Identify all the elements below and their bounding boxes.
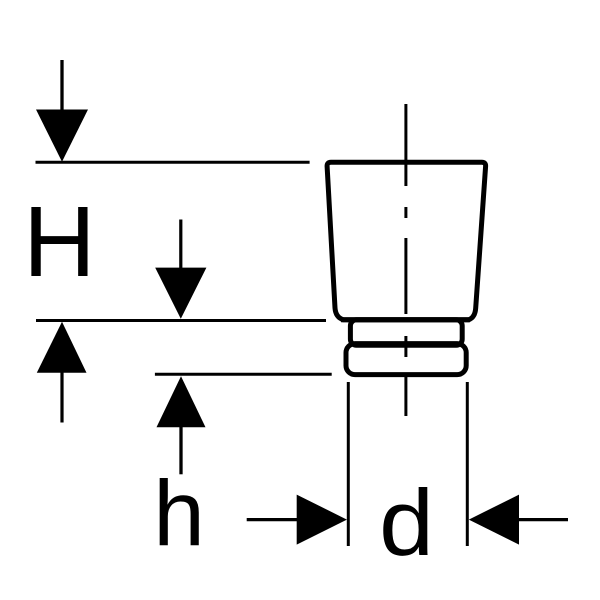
centerline segment 3: [404, 238, 407, 314]
extension line d right: [466, 382, 469, 546]
centerline dash 4: [404, 336, 407, 357]
centerline segment 5: [404, 376, 407, 416]
centerline segment 1: [404, 104, 407, 186]
svg-text:h: h: [153, 462, 205, 566]
extension line d left: [347, 382, 350, 546]
cap bottom band rounded rect: [346, 344, 466, 375]
dimension line top (H upper reference): [36, 161, 310, 164]
dimension arrow H top (down) head: [36, 110, 88, 162]
cap neck rounded rect: [350, 320, 462, 345]
dimension line lower (h lower reference): [155, 373, 332, 376]
dimension arrow d right (left-pointing) stem: [517, 518, 568, 521]
dimension line middle (H lower / h upper reference): [36, 319, 326, 322]
dimension arrow H bottom (up) head: [37, 322, 87, 373]
centerline dash 2: [404, 207, 407, 218]
dimension arrow H top (down) stem: [60, 60, 63, 112]
dimension arrow d left (right-pointing) stem: [247, 518, 299, 521]
dimension arrow d left (right-pointing) head: [297, 495, 347, 545]
cap ledge line: [341, 317, 470, 322]
cap body trapezoid outline: [327, 162, 486, 319]
dimension arrow H bottom (up) stem: [60, 370, 63, 423]
dimension arrow h top (down) stem: [179, 220, 182, 271]
dimension arrow h top (down) head: [155, 268, 206, 319]
svg-text:H: H: [23, 186, 96, 298]
svg-text:d: d: [379, 470, 434, 575]
dimension arrow h bottom (up) stem: [179, 426, 182, 475]
dimension arrow d right (left-pointing) head: [469, 495, 519, 545]
dimension arrow h bottom (up) head: [157, 376, 206, 427]
